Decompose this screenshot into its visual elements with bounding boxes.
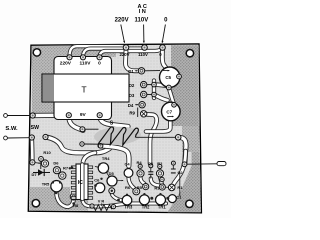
diode D4 bbox=[139, 102, 145, 108]
resistor R8 bbox=[70, 193, 77, 200]
copper area bottom-right bbox=[168, 152, 202, 212]
resistor R1 bbox=[168, 184, 175, 191]
wire trace R9 down centre bbox=[147, 114, 157, 163]
svg-text:C6: C6 bbox=[94, 177, 100, 182]
wire D4 lead down bbox=[137, 108, 139, 118]
node pad right of coil bbox=[175, 135, 181, 141]
capacitor C4 bbox=[124, 169, 133, 178]
op-amp IC bbox=[71, 164, 92, 200]
svg-text:110V: 110V bbox=[138, 52, 148, 57]
wire 0 arrow bbox=[162, 25, 165, 43]
wire trace R2 down bbox=[160, 177, 162, 184]
resistor R5 bbox=[143, 184, 149, 190]
svg-text:TR5: TR5 bbox=[42, 182, 50, 187]
svg-text:IC: IC bbox=[78, 180, 83, 186]
svg-text:S.W.: S.W. bbox=[5, 126, 18, 132]
wire D2 lead bbox=[147, 84, 152, 86]
transformer secondary pad 9V right bbox=[97, 113, 102, 118]
wire long lead to right pad bbox=[136, 136, 176, 138]
wire trace diode bus to C5 bbox=[154, 85, 167, 86]
resistor R7 bbox=[59, 172, 66, 179]
wire trace 0 primary bbox=[100, 48, 163, 58]
wire trace 0 pad down to C5 bbox=[162, 48, 166, 68]
wire trace C5 to C7 bbox=[169, 88, 174, 105]
svg-text:D5: D5 bbox=[109, 171, 115, 176]
svg-text:D7: D7 bbox=[31, 172, 37, 177]
wire D1 to C5 bbox=[145, 70, 160, 72]
copper area top-left bbox=[32, 46, 116, 118]
node AC pad 110V bbox=[142, 45, 148, 51]
switch terminal S.W. lower bbox=[4, 136, 8, 140]
transistor TR2 bbox=[139, 195, 149, 205]
wire S.W. lower lead bbox=[7, 137, 29, 139]
inductor S bbox=[98, 127, 138, 145]
diode D7 bbox=[33, 172, 50, 174]
wire C2 to C1 bbox=[179, 172, 181, 196]
resistor R4 bbox=[137, 170, 144, 177]
resistor R10 bbox=[41, 160, 48, 167]
svg-text:R9: R9 bbox=[129, 111, 135, 116]
svg-text:0: 0 bbox=[98, 60, 101, 66]
wire trace SW to R10 bbox=[30, 138, 35, 161]
wire 220V arrow bbox=[121, 25, 125, 43]
svg-text:R7: R7 bbox=[63, 165, 69, 170]
node diode bus pad 2 bbox=[152, 92, 157, 97]
wire trace coil to C4 bbox=[100, 146, 129, 166]
svg-text:220V: 220V bbox=[119, 52, 129, 57]
svg-text:C4: C4 bbox=[124, 162, 130, 167]
transistor TR1 bbox=[156, 195, 166, 205]
diode D2 bbox=[141, 81, 147, 87]
diode D5 bbox=[107, 176, 117, 186]
svg-text:S: S bbox=[110, 121, 114, 127]
svg-text:TR1: TR1 bbox=[158, 204, 166, 209]
mounting hole bottom-left bbox=[32, 200, 39, 207]
transistor TR5 bbox=[51, 181, 62, 192]
capacitor C1 bbox=[168, 195, 176, 203]
svg-text:C1: C1 bbox=[176, 194, 182, 199]
svg-text:D2: D2 bbox=[129, 83, 135, 88]
wire trace R4 to R5 bbox=[140, 177, 144, 184]
resistor R6 bbox=[133, 188, 140, 195]
wire trace TR5 to R8 bbox=[56, 192, 73, 207]
wire trace under IC bbox=[83, 153, 96, 201]
wire trace AC to D1 bbox=[126, 48, 139, 71]
diode D6 bbox=[53, 167, 60, 174]
svg-text:C3: C3 bbox=[148, 161, 154, 166]
copper area top-right bbox=[171, 45, 199, 126]
svg-text:9V: 9V bbox=[80, 112, 87, 118]
PCB board outline bbox=[28, 44, 201, 213]
wire trace SW lower run bbox=[46, 137, 110, 153]
transformer primary pad 110V bbox=[80, 55, 85, 60]
node SW pad lower bbox=[29, 135, 34, 140]
wire trace right side down bbox=[178, 137, 186, 164]
wire 110V arrow bbox=[143, 25, 145, 43]
wire trace pad to TR3 bbox=[112, 194, 122, 200]
diode D1 bbox=[138, 68, 144, 74]
svg-text:C5: C5 bbox=[165, 75, 171, 80]
mounting hole bottom-right bbox=[186, 200, 193, 207]
connector output pin bbox=[217, 162, 226, 166]
wire trace 9V left down to coil bbox=[69, 115, 83, 130]
svg-text:D1: D1 bbox=[128, 69, 134, 74]
wire trace diode bus to C7 bbox=[154, 95, 168, 101]
svg-text:TR3: TR3 bbox=[125, 205, 133, 210]
transformer primary pad 220V bbox=[67, 55, 72, 60]
resistor R2 bbox=[156, 170, 163, 177]
wire trace SW to 9V pad bbox=[34, 113, 66, 119]
transformer primary pad 0 bbox=[97, 55, 102, 60]
mounting hole top-right bbox=[186, 50, 193, 57]
node coil pad left bbox=[80, 127, 85, 132]
resistor R9 bbox=[141, 111, 147, 117]
svg-text:110V: 110V bbox=[80, 60, 92, 66]
svg-text:I N: I N bbox=[139, 9, 146, 15]
node SW pad 2 bbox=[43, 134, 48, 139]
svg-text:R5: R5 bbox=[137, 185, 143, 190]
svg-text:C2: C2 bbox=[177, 170, 183, 175]
wire trace C3 down bbox=[151, 179, 159, 186]
transformer T core bbox=[42, 74, 129, 102]
wire trace 220V primary bbox=[70, 46, 127, 57]
node pad mid junction bbox=[98, 144, 103, 149]
wire S.W. upper lead bbox=[7, 115, 31, 117]
node diode bus pad 1 bbox=[152, 82, 157, 87]
copper area bottom-left bbox=[29, 187, 88, 211]
svg-text:R10: R10 bbox=[43, 150, 51, 155]
transistor TR3 bbox=[122, 195, 132, 205]
svg-text:220V: 220V bbox=[115, 17, 129, 23]
capacitor C5 bbox=[160, 67, 180, 87]
node AC pad 220V bbox=[123, 45, 129, 51]
svg-text:D4: D4 bbox=[128, 103, 134, 108]
wire trace 9V right down bbox=[100, 115, 128, 126]
wire trace diode bus bbox=[152, 81, 156, 99]
transformer secondary pad 9V left bbox=[66, 113, 71, 118]
wire output lead bbox=[187, 163, 217, 165]
svg-text:T: T bbox=[81, 84, 87, 94]
svg-text:110V: 110V bbox=[135, 17, 149, 23]
svg-text:C7: C7 bbox=[166, 109, 172, 114]
capacitor C3 bbox=[148, 172, 153, 175]
node pad below D5 bbox=[109, 188, 115, 194]
node AC pad 0 bbox=[160, 45, 166, 51]
node SW pad upper bbox=[30, 113, 35, 118]
wire trace C7 down left bbox=[146, 120, 170, 132]
wire coil bottom lead bbox=[84, 143, 111, 145]
wire IC to TR4 bbox=[95, 166, 98, 169]
svg-text:TR4: TR4 bbox=[102, 156, 110, 161]
capacitor C7 bbox=[162, 102, 181, 121]
inductor S shade bbox=[94, 126, 142, 146]
svg-text:R3: R3 bbox=[154, 185, 160, 190]
wire trace to R1 bbox=[173, 151, 185, 185]
capacitor C6 bbox=[95, 183, 105, 193]
wire trace 110V primary bbox=[83, 48, 145, 58]
svg-text:SW: SW bbox=[31, 125, 39, 131]
svg-text:D6: D6 bbox=[53, 161, 59, 166]
capacitor C2 bbox=[171, 169, 176, 173]
diode D3 bbox=[141, 91, 147, 97]
copper strip between diode pads bbox=[147, 64, 162, 110]
svg-text:D3: D3 bbox=[129, 93, 135, 98]
transformer T bobbin bbox=[54, 57, 112, 120]
wire D3 lead bbox=[147, 94, 152, 96]
wire D5 output arrow bbox=[117, 179, 123, 181]
resistor R3 bbox=[159, 184, 165, 190]
wire trace C4 to R6 bbox=[129, 177, 135, 188]
node output pad bbox=[182, 162, 187, 167]
transistor TR4 bbox=[98, 163, 108, 173]
svg-text:TR2: TR2 bbox=[142, 205, 150, 210]
mounting hole top-left bbox=[33, 49, 40, 56]
svg-text:R1: R1 bbox=[177, 185, 183, 190]
svg-text:V R: V R bbox=[98, 198, 105, 203]
wire trace bottom transistor rail bbox=[83, 199, 167, 207]
switch terminal S.W. upper bbox=[4, 114, 8, 118]
svg-text:R6: R6 bbox=[125, 185, 131, 190]
copper area mid-right bbox=[182, 126, 199, 152]
svg-text:220V: 220V bbox=[60, 60, 72, 66]
